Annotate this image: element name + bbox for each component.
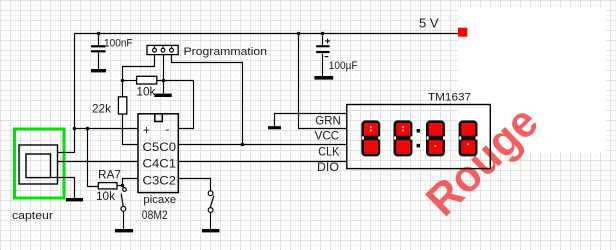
- wire 5V rail: [75, 33, 459, 35]
- svg-text:10k: 10k: [96, 191, 115, 203]
- 7-segment digit 4: [459, 120, 478, 156]
- svg-text:Programmation: Programmation: [184, 46, 268, 58]
- wire picaxe C2 to switch S2: [179, 179, 211, 191]
- 7-segment digit 3: [426, 120, 445, 156]
- svg-text:+: +: [143, 123, 150, 137]
- wire capacitor C2 stem top: [322, 34, 324, 46]
- wire picaxe C1 to display DIO: [179, 161, 347, 163]
- wire programmation pin1 to serial node: [123, 53, 155, 97]
- connector J1 programmation: [147, 45, 178, 54]
- ground (100uF): [314, 76, 333, 80]
- wire 5V to display VCC: [299, 34, 347, 129]
- resistor R3 RA7 10k: [98, 183, 117, 189]
- wire programmation pin2 to ground: [163, 53, 165, 94]
- op IC U1 picaxe 08M2 body: [138, 114, 178, 193]
- wire V+ row to picaxe + pin: [75, 128, 139, 130]
- sensor outer square: [19, 145, 58, 184]
- svg-text:CLK: CLK: [318, 145, 339, 159]
- wire capacitor C1 stem bottom: [98, 53, 100, 70]
- switch S1: [121, 188, 126, 212]
- ground (switch S2): [202, 229, 219, 232]
- terminal 5V red square: [458, 28, 467, 37]
- svg-text:22k: 22k: [92, 101, 112, 115]
- wire RA7 to node: [118, 185, 123, 187]
- svg-text:picaxe: picaxe: [143, 194, 176, 206]
- wire switch S1 to ground: [123, 212, 125, 230]
- wire picaxe C0 to display CLK: [179, 144, 347, 146]
- svg-text:C5C0: C5C0: [143, 140, 177, 154]
- switch S2: [208, 191, 214, 213]
- ground (programmation): [154, 94, 171, 97]
- svg-text:VCC: VCC: [315, 129, 340, 143]
- wire capacitor C1 stem top: [98, 34, 100, 46]
- wire display GRN to ground: [275, 114, 347, 127]
- svg-text:C3C2: C3C2: [143, 173, 177, 187]
- svg-text:10k: 10k: [136, 86, 155, 98]
- sensor inner square: [26, 154, 51, 178]
- 7-segment digit 2: [394, 120, 413, 156]
- svg-text:TM1637: TM1637: [428, 92, 471, 104]
- wire node to switch S1: [123, 186, 124, 190]
- capacitor C1 100nF plates: [91, 45, 106, 52]
- capacitor C2 polarity marks: [325, 39, 331, 57]
- ground (sensor): [66, 198, 83, 201]
- resistor R1 10k (serial): [137, 76, 157, 84]
- wire switch S2 to ground: [210, 213, 212, 230]
- capacitor C2 100uF plates: [316, 45, 329, 53]
- svg-text:DIO: DIO: [317, 160, 339, 174]
- wire RA7 pull-up vertical: [88, 129, 99, 187]
- 7-segment digit 1: [361, 120, 380, 156]
- wire sensor output to picaxe C4: [58, 161, 139, 163]
- sensor green frame: [15, 129, 65, 198]
- svg-text:RA7: RA7: [98, 167, 121, 181]
- display module TM1637 box: [347, 105, 491, 169]
- svg-text:08M2: 08M2: [142, 210, 168, 222]
- ground (display GRN): [268, 126, 281, 129]
- wire programmation pin3 to serial out: [172, 53, 243, 145]
- colon: [417, 129, 420, 133]
- svg-text:GRN: GRN: [315, 113, 341, 127]
- wire capacitor C2 stem bottom: [322, 54, 324, 77]
- svg-text:-: -: [166, 122, 170, 136]
- wire resistor 10k to ground node: [157, 80, 194, 82]
- svg-text:100µF: 100µF: [329, 60, 358, 72]
- svg-text:capteur: capteur: [12, 210, 53, 222]
- wire serial node to resistor 10k: [123, 80, 137, 82]
- wire node to picaxe C3: [123, 179, 139, 186]
- svg-text:C4C1: C4C1: [143, 157, 177, 171]
- wire resistor 22k stem bottom to picaxe C5: [123, 115, 139, 145]
- wire ground node to picaxe minus pin: [179, 81, 194, 129]
- wire sensor lower to ground: [51, 178, 75, 199]
- ground (100nF): [91, 69, 106, 72]
- svg-text:100nF: 100nF: [104, 37, 133, 49]
- wire left rail vertical to sensor: [58, 34, 75, 153]
- resistor R2 22k: [118, 97, 126, 114]
- ground (switch S1): [115, 229, 133, 232]
- white panel behind 5V / display area: [458, 8, 606, 152]
- svg-text:5 V: 5 V: [419, 15, 439, 30]
